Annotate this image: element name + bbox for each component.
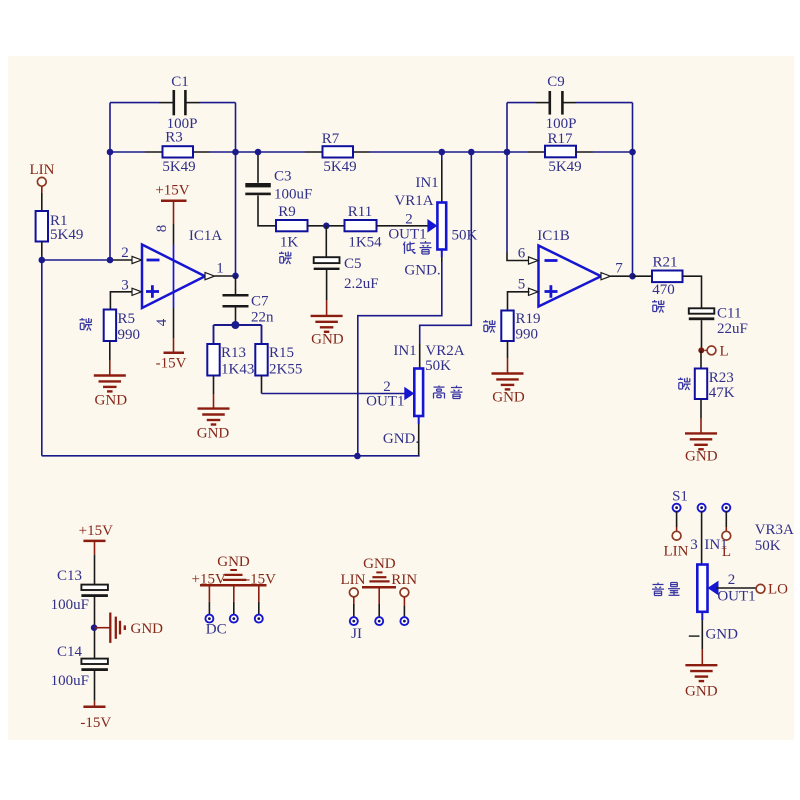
- potentiometer VR1A: [437, 203, 446, 250]
- label carbon R9: [279, 252, 292, 265]
- svg-text:7: 7: [615, 261, 623, 277]
- wire C14 to -15V: [94, 671, 96, 701]
- power -15V port IC1A: [164, 352, 185, 355]
- ground symbol R5: [94, 374, 126, 376]
- svg-text:50K: 50K: [425, 358, 451, 374]
- node RIN terminal JI: [400, 588, 409, 597]
- svg-text:R9: R9: [278, 204, 296, 220]
- svg-text:LIN: LIN: [30, 162, 55, 178]
- resistor R15: [255, 344, 267, 376]
- svg-text:5: 5: [518, 277, 526, 293]
- wire ground-loop left vertical: [41, 260, 43, 456]
- power -15V port C14: [83, 706, 105, 709]
- svg-text:2K55: 2K55: [269, 362, 302, 378]
- svg-text:8: 8: [154, 225, 170, 233]
- ground symbol R19: [492, 372, 524, 374]
- wire VR1A top: [441, 152, 443, 160]
- svg-text:GND: GND: [705, 627, 738, 643]
- svg-text:C7: C7: [251, 294, 269, 310]
- node LIN terminal S1: [672, 531, 681, 540]
- wire JI header bar: [362, 586, 396, 589]
- svg-text:S1: S1: [672, 489, 688, 505]
- wire S1 pin1: [676, 511, 678, 527]
- resistor R13: [207, 344, 219, 376]
- svg-text:+15V: +15V: [155, 183, 189, 199]
- svg-text:R5: R5: [118, 311, 136, 327]
- svg-text:470: 470: [652, 282, 675, 298]
- svg-text:GND: GND: [197, 426, 230, 442]
- wire feedback left vertical: [109, 103, 111, 260]
- capacitor C7: [223, 294, 249, 297]
- svg-text:DC: DC: [206, 622, 227, 638]
- wire R23 to ground: [700, 399, 702, 419]
- svg-text:2: 2: [405, 212, 413, 228]
- ground symbol sideways supply: [95, 627, 111, 629]
- node junction feedback left: [107, 149, 114, 156]
- wire pin6 vertical: [506, 152, 508, 252]
- svg-text:VR2A: VR2A: [425, 343, 464, 359]
- svg-text:2.2uF: 2.2uF: [344, 276, 379, 292]
- svg-text:2: 2: [121, 245, 129, 261]
- wire pin3 to R5: [110, 292, 132, 310]
- svg-text:L: L: [722, 544, 731, 560]
- node junction supply mid: [91, 624, 98, 631]
- node junction VR2A top: [468, 149, 475, 156]
- node L terminal S1: [722, 531, 731, 540]
- svg-text:VR3A: VR3A: [755, 522, 794, 538]
- resistor R11: [345, 220, 377, 231]
- pin 2 arrow IC1A: [132, 256, 142, 263]
- node junction bus VR1A: [354, 453, 361, 460]
- connector S1 pins: [673, 504, 681, 512]
- svg-text:100uF: 100uF: [51, 673, 89, 689]
- wire C3 tap: [257, 152, 259, 183]
- wire S1 pin2 to VR3A: [701, 511, 703, 565]
- svg-text:GND: GND: [311, 332, 344, 348]
- wire VR1A bottom route: [441, 250, 443, 258]
- capacitor C3: [245, 183, 270, 187]
- wire C3 to R9: [258, 196, 276, 226]
- wire C7 to divider: [235, 306, 237, 325]
- svg-text:5K49: 5K49: [548, 159, 581, 175]
- svg-text:R17: R17: [547, 131, 573, 147]
- resistor R21: [652, 271, 683, 283]
- svg-text:C14: C14: [57, 644, 83, 660]
- svg-text:GND: GND: [217, 554, 250, 570]
- svg-text:GND.: GND.: [383, 431, 419, 447]
- svg-text:C3: C3: [274, 169, 292, 185]
- svg-text:VR1A: VR1A: [394, 193, 433, 209]
- wire C9 left: [507, 102, 536, 104]
- svg-text:R11: R11: [348, 204, 372, 220]
- svg-text:+15V: +15V: [79, 523, 113, 539]
- resistor R1: [36, 211, 48, 242]
- svg-text:GND: GND: [685, 449, 718, 465]
- node L output: [698, 347, 704, 353]
- svg-text:JI: JI: [351, 626, 362, 642]
- svg-text:100uF: 100uF: [274, 187, 312, 203]
- wire DC pin3: [258, 585, 260, 602]
- svg-text:50K: 50K: [755, 538, 781, 554]
- node junction LIN row: [39, 257, 46, 264]
- wire output vertical: [235, 152, 237, 276]
- svg-text:5K49: 5K49: [323, 159, 356, 175]
- svg-text:IC1B: IC1B: [537, 228, 570, 244]
- node junction C3 tap: [255, 149, 262, 156]
- svg-text:6: 6: [518, 246, 526, 262]
- wire L to R23: [700, 350, 702, 368]
- wire +15V to C13: [94, 541, 96, 555]
- wire IC1A output: [215, 275, 236, 277]
- op-amp U IC1B: [539, 246, 602, 307]
- svg-text:IC1A: IC1A: [189, 228, 223, 244]
- wire C1 left: [110, 102, 159, 104]
- node junction VR1A top: [439, 149, 446, 156]
- svg-text:2: 2: [728, 572, 736, 588]
- wire VR3A bottom: [701, 612, 703, 620]
- capacitor C1: [173, 90, 176, 115]
- label carbon R19: [483, 320, 496, 333]
- svg-text:C11: C11: [717, 306, 741, 322]
- node LO terminal: [756, 584, 765, 593]
- node junction IC1A output: [232, 273, 239, 280]
- svg-text:5K49: 5K49: [50, 227, 83, 243]
- ground symbol R13: [198, 407, 230, 409]
- wire JI pin1: [353, 597, 355, 604]
- connector JI pins: [350, 617, 358, 625]
- wire IC1B output: [611, 275, 633, 277]
- svg-text:R3: R3: [165, 130, 183, 146]
- pin 5 arrow IC1B: [529, 288, 539, 295]
- label carbon R23: [678, 378, 691, 391]
- wire inverting input row: [42, 259, 110, 261]
- label treble: [434, 386, 445, 399]
- svg-text:LIN: LIN: [341, 572, 366, 588]
- wire R11 to VR1A wiper: [377, 225, 430, 227]
- svg-text:-15V: -15V: [156, 356, 187, 372]
- resistor R9: [276, 220, 308, 231]
- node junction pin2: [107, 257, 114, 264]
- label bass: [403, 242, 415, 254]
- wire C13 to C14: [94, 597, 96, 658]
- pin 7 arrow IC1B: [601, 273, 611, 280]
- svg-text:IN1: IN1: [415, 175, 438, 191]
- wire R3 row right: [193, 151, 210, 153]
- svg-text:22uF: 22uF: [717, 321, 748, 337]
- svg-text:-15V: -15V: [80, 715, 111, 731]
- wire R21 to C11: [683, 276, 702, 308]
- wire LIN to R1: [41, 186, 43, 193]
- wire pin5 to R19: [508, 292, 530, 311]
- label carbon R21: [652, 300, 665, 313]
- wire R15 to VR2A wiper: [261, 376, 263, 394]
- wire R7 row right: [353, 151, 370, 153]
- wire VR2A bottom: [418, 416, 420, 424]
- pin 6 arrow IC1B: [529, 257, 539, 264]
- svg-text:C9: C9: [547, 74, 565, 90]
- op-amp U IC1A: [142, 245, 205, 309]
- wire drop to R13: [213, 325, 215, 344]
- resistor R19: [501, 311, 513, 342]
- resistor R23: [695, 369, 707, 400]
- wire divider row: [214, 324, 262, 326]
- connector DC pins: [205, 615, 213, 623]
- ground symbol R23: [685, 432, 717, 434]
- svg-text:100P: 100P: [546, 116, 577, 132]
- node junction R17 right: [629, 149, 636, 156]
- svg-text:R19: R19: [516, 311, 541, 327]
- capacitor C14: [81, 659, 108, 664]
- wire R19 to ground: [507, 341, 509, 358]
- svg-text:GND.: GND.: [404, 263, 440, 279]
- pin 1 arrow IC1A: [205, 273, 215, 280]
- svg-text:RIN: RIN: [391, 572, 417, 588]
- wire R7 row left: [236, 151, 306, 153]
- wire S1 pin3: [725, 511, 727, 527]
- pin 3 arrow IC1A: [132, 288, 142, 295]
- svg-text:R7: R7: [322, 131, 340, 147]
- svg-text:1: 1: [216, 261, 224, 277]
- wire VR3A wiper to LO: [716, 587, 756, 589]
- svg-text:C5: C5: [344, 256, 362, 272]
- wire C5 to ground: [326, 270, 328, 300]
- wire R5 to ground: [109, 341, 111, 360]
- svg-text:50K: 50K: [452, 228, 478, 244]
- node LIN terminal JI: [349, 588, 358, 597]
- svg-text:990: 990: [516, 327, 539, 343]
- node junction R3 output: [232, 149, 239, 156]
- wire R9 to R11: [308, 225, 345, 227]
- node junction IC1B output: [629, 273, 636, 280]
- capacitor C13: [81, 585, 108, 590]
- wire R1 to node: [41, 242, 43, 261]
- label carbon R5: [80, 318, 93, 331]
- node junction divider: [231, 321, 239, 329]
- svg-text:GND: GND: [131, 621, 164, 637]
- svg-text:47K: 47K: [709, 385, 735, 401]
- svg-text:L: L: [720, 344, 729, 360]
- wire output to C7: [235, 276, 237, 295]
- wire drop to R15: [261, 325, 263, 344]
- capacitor C9: [548, 91, 551, 115]
- svg-text:R23: R23: [709, 370, 734, 386]
- svg-text:GND: GND: [685, 684, 718, 700]
- wire R3 row left: [110, 151, 145, 153]
- wire C9 right: [564, 102, 577, 104]
- wire JI pin2: [378, 587, 380, 604]
- ground symbol C5: [311, 315, 343, 317]
- wire DC header bar: [200, 584, 267, 587]
- resistor R17: [545, 146, 576, 158]
- svg-text:IN1: IN1: [393, 343, 416, 359]
- wire C11 to L node: [701, 320, 703, 350]
- wire feedback right vertical: [632, 103, 634, 277]
- svg-text:C13: C13: [57, 568, 82, 584]
- node junction R17 left: [504, 149, 511, 156]
- svg-text:LIN: LIN: [664, 544, 689, 560]
- svg-text:1K: 1K: [280, 235, 299, 251]
- svg-text:22n: 22n: [251, 310, 274, 326]
- svg-text:C1: C1: [171, 74, 189, 90]
- svg-text:3: 3: [690, 537, 698, 553]
- resistor R3: [163, 146, 194, 157]
- potentiometer VR2A: [414, 369, 423, 417]
- label GND net VR3A: [689, 635, 700, 637]
- svg-text:OUT1: OUT1: [366, 394, 404, 410]
- wire JI pin3: [403, 597, 405, 606]
- wire VR2A top route: [420, 152, 472, 344]
- svg-text:100uF: 100uF: [51, 597, 89, 613]
- svg-text:5K49: 5K49: [162, 159, 195, 175]
- wire C5 tap: [325, 226, 327, 257]
- node junction C5 tap: [323, 223, 330, 230]
- potentiometer VR3A: [697, 565, 707, 612]
- svg-text:R15: R15: [269, 345, 294, 361]
- svg-text:GND: GND: [492, 390, 525, 406]
- wire DC pin2: [233, 585, 235, 602]
- node LIN input terminal: [37, 177, 46, 186]
- wire to R21: [633, 275, 653, 277]
- svg-text:R21: R21: [652, 255, 677, 271]
- ground symbol VR3A: [685, 664, 717, 666]
- svg-text:GND: GND: [95, 393, 128, 409]
- svg-text:1K43: 1K43: [221, 362, 254, 378]
- capacitor C11: [689, 308, 715, 313]
- wire R13 to ground: [213, 376, 215, 395]
- svg-text:OUT1: OUT1: [388, 227, 426, 243]
- svg-text:1K54: 1K54: [348, 235, 382, 251]
- wire +15V stem IC1A: [173, 201, 175, 224]
- label volume: [652, 583, 664, 596]
- svg-text:4: 4: [154, 318, 170, 326]
- svg-text:GND: GND: [363, 556, 396, 572]
- wire R17 row right: [576, 151, 593, 153]
- resistor R5: [104, 310, 116, 342]
- wire C9 left drop: [506, 103, 508, 152]
- wire R17 row left: [507, 151, 528, 153]
- svg-text:OUT1: OUT1: [717, 589, 755, 605]
- wire DC pin1: [208, 585, 210, 602]
- svg-text:990: 990: [118, 327, 141, 343]
- svg-text:LO: LO: [768, 582, 788, 598]
- svg-text:R13: R13: [221, 345, 246, 361]
- resistor R7: [323, 146, 354, 157]
- wire C1 right: [187, 102, 201, 104]
- wire ground-loop bottom bus: [42, 455, 420, 457]
- capacitor C5: [314, 257, 340, 263]
- wire C1 right drop: [235, 103, 237, 152]
